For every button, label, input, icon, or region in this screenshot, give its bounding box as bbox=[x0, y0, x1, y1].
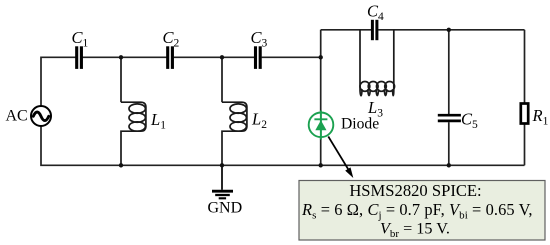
svg-text:Rs = 6 Ω, Cj = 0.7 pF, Vbi = 0: Rs = 6 Ω, Cj = 0.7 pF, Vbi = 0.65 V, bbox=[301, 200, 533, 222]
node dot: top-right rail / C5 bbox=[447, 28, 451, 32]
resistor R1 bbox=[521, 30, 528, 166]
inductor L3 (tank loop) bbox=[360, 30, 395, 96]
capacitor C5 bbox=[438, 30, 461, 166]
node dot: top rail / L1 bbox=[119, 55, 123, 59]
node dot: bottom rail / L1 bbox=[119, 163, 123, 167]
SPICE note box bbox=[299, 181, 545, 241]
wire: left loop from AC up to top rail bbox=[41, 57, 525, 165]
AC source V1 bbox=[31, 106, 51, 126]
node dot: bottom rail / C5 bbox=[447, 163, 451, 167]
capacitor C4 bbox=[372, 20, 377, 40]
capacitor C1 bbox=[77, 46, 82, 69]
inductor L2 bbox=[222, 57, 247, 165]
diode D1 bbox=[309, 111, 334, 140]
inductor L1 bbox=[121, 57, 146, 165]
node dot: bottom rail / GND bbox=[220, 163, 224, 167]
capacitor C3 bbox=[256, 46, 261, 69]
svg-text:Diode: Diode bbox=[341, 116, 379, 133]
capacitor C2 bbox=[168, 46, 173, 69]
node dot: top rail / L2 bbox=[220, 55, 224, 59]
wire: main node vertical (diode branch) bbox=[320, 30, 322, 166]
node dot: top rail / diode branch bbox=[319, 55, 323, 59]
svg-text:HSMS2820 SPICE:: HSMS2820 SPICE: bbox=[349, 181, 481, 200]
node dot: bottom rail / diode bbox=[319, 163, 323, 167]
svg-text:GND: GND bbox=[207, 199, 242, 216]
ground bbox=[212, 165, 233, 198]
svg-text:AC: AC bbox=[6, 108, 28, 125]
arrow from diode to SPICE note bbox=[328, 137, 353, 179]
wire: top-right rail bbox=[321, 29, 525, 31]
